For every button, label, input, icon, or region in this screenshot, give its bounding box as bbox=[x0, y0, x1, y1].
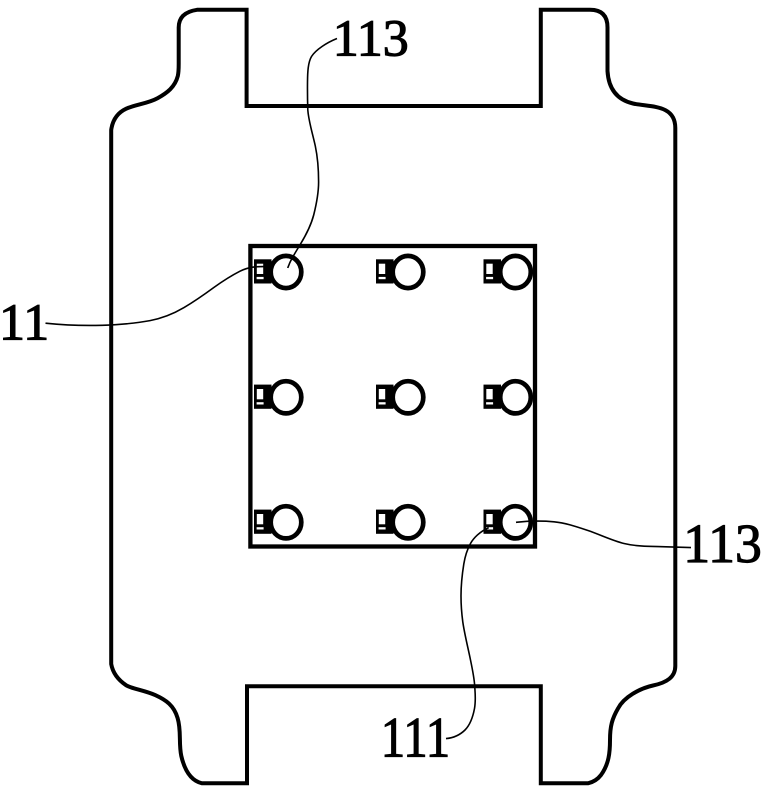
rivet 113 row2 col2 bbox=[376, 381, 423, 413]
leader line top 113 to rivet row1 col1 center bbox=[288, 39, 337, 269]
svg-text:113: 113 bbox=[683, 513, 762, 574]
mounting square 11 bbox=[250, 246, 535, 547]
rivet 113 row3 col1 bbox=[254, 506, 301, 538]
rivet 113 row2 col3 bbox=[484, 381, 531, 413]
svg-text:111: 111 bbox=[381, 707, 451, 770]
leader line bottom-right 113 to rivet row3 col3 center bbox=[516, 521, 691, 547]
rivet 113 row3 col3 bbox=[484, 506, 531, 538]
leader line 111 to rivet row3 col3 bracket bbox=[446, 528, 489, 739]
svg-text:11: 11 bbox=[0, 295, 49, 352]
rivet 113 row1 col1 bbox=[254, 256, 301, 288]
rivet 113 row3 col2 bbox=[376, 506, 423, 538]
rivet 113 row2 col1 bbox=[254, 381, 301, 413]
rivet 113 row1 col2 bbox=[376, 256, 423, 288]
rivet 113 row1 col3 bbox=[484, 256, 531, 288]
plate outline bbox=[111, 10, 675, 784]
leader line 11 to rivet row1 col1 bracket bbox=[46, 267, 266, 326]
svg-text:113: 113 bbox=[333, 10, 409, 67]
